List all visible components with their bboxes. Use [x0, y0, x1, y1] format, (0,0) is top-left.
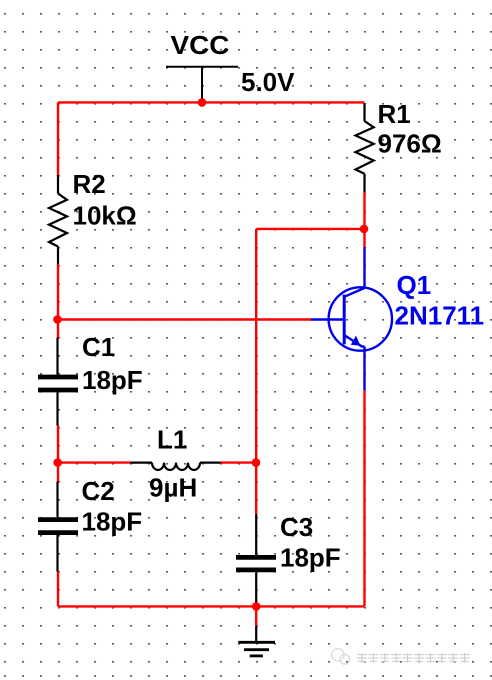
ground	[238, 626, 275, 656]
wire L1 right lead (red)	[221, 461, 256, 463]
transistor Q1	[311, 247, 392, 390]
wire feedback horizontal (collector to C3 column)	[256, 228, 364, 230]
wire left rail R2 to C1	[57, 264, 59, 338]
wire emitter to bottom rail	[363, 390, 365, 606]
svg-text:18pF: 18pF	[82, 365, 143, 395]
svg-text:2N1711: 2N1711	[395, 301, 485, 331]
svg-text:9µH: 9µH	[149, 473, 197, 503]
svg-text:C1: C1	[82, 332, 115, 362]
wire left rail upper (top rail to R2)	[57, 102, 59, 176]
svg-text:R1: R1	[378, 99, 411, 129]
svg-text:10kΩ: 10kΩ	[73, 201, 137, 231]
capacitor C1	[38, 338, 78, 426]
node base junction	[53, 315, 62, 324]
capacitor C2	[38, 482, 78, 572]
svg-text:VCC: VCC	[171, 30, 230, 60]
wire ground stub	[255, 606, 257, 625]
watermark text	[357, 653, 470, 663]
svg-text:18pF: 18pF	[82, 507, 143, 537]
capacitor C3	[236, 514, 276, 606]
wire left rail C1 to C2	[57, 426, 59, 482]
svg-text:976Ω: 976Ω	[378, 128, 442, 158]
node VCC junction	[198, 98, 207, 107]
svg-text:C2: C2	[82, 476, 115, 506]
wire base (left rail to Q1)	[58, 318, 311, 320]
svg-text:Q1: Q1	[397, 270, 432, 300]
wire L1 left lead (red)	[58, 461, 131, 463]
svg-text:L1: L1	[157, 425, 187, 455]
wire bottom rail	[58, 605, 365, 607]
svg-text:C3: C3	[280, 512, 313, 542]
wire left rail C2 to bottom rail	[57, 572, 59, 607]
power VCC symbol	[166, 67, 238, 103]
node L1 right junction	[252, 458, 261, 467]
wire R1 bottom to collector node	[363, 192, 365, 247]
node collector junction	[360, 225, 369, 234]
svg-text:18pF: 18pF	[280, 543, 341, 573]
resistor R2	[49, 175, 67, 264]
node ground junction	[252, 602, 261, 611]
node L1 left junction	[53, 458, 62, 467]
wire feedback vertical (down to L1 right junction)	[255, 229, 257, 463]
wire L1 right junction to C3	[255, 463, 257, 514]
svg-text:5.0V: 5.0V	[241, 67, 295, 97]
resistor R1	[356, 104, 374, 193]
svg-text:R2: R2	[73, 169, 106, 199]
wire top rail	[58, 101, 365, 103]
inductor L1	[131, 463, 221, 470]
watermark logo	[332, 649, 350, 665]
